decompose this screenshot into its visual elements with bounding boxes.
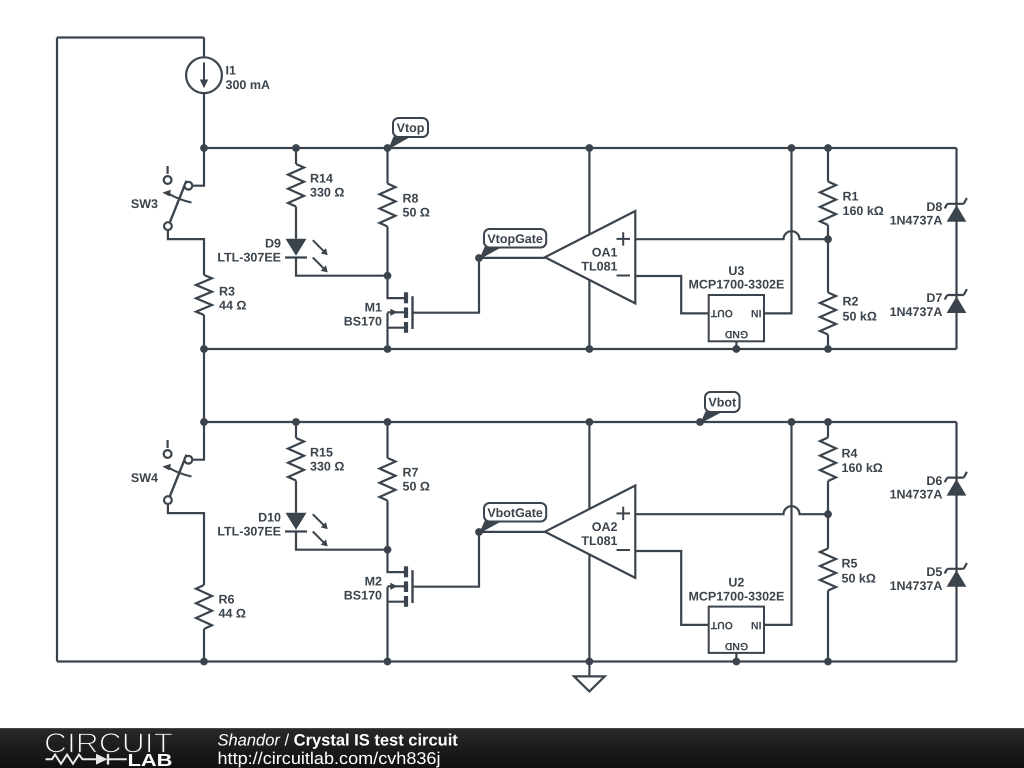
junction at 204,422: [200, 418, 208, 426]
junction at 204,661.5: [200, 658, 208, 666]
svg-text:D9: D9: [265, 236, 281, 250]
wire M1 source to rail: [386, 313, 388, 349]
wire R2 to mid rail: [827, 335, 829, 350]
svg-text:TL081: TL081: [581, 259, 617, 273]
junction at 296,422: [292, 418, 300, 426]
svg-text:160 kΩ: 160 kΩ: [842, 461, 883, 475]
svg-text:R2: R2: [843, 295, 859, 309]
wire OA1 noninverting: [635, 231, 828, 239]
svg-text:http://circuitlab.com/cvh836j: http://circuitlab.com/cvh836j: [218, 749, 441, 768]
svg-text:R7: R7: [403, 466, 419, 480]
svg-text:300 mA: 300 mA: [226, 78, 270, 92]
svg-text:44 Ω: 44 Ω: [219, 607, 246, 621]
wire I1 leads: [203, 38, 205, 149]
junction at 204,349: [200, 345, 208, 353]
svg-text:50 kΩ: 50 kΩ: [842, 572, 876, 586]
junction at 387.5,148: [384, 144, 392, 152]
wire VtopGate to M1 gate: [413, 258, 480, 313]
wire VbotGate to M2 gate: [413, 532, 480, 587]
wire OA1 inverting to U3 OUT: [635, 276, 708, 313]
junction at 736.4,661.5: [733, 658, 741, 666]
net flag VtopGate: [479, 229, 546, 260]
wire mid rail: [204, 348, 957, 350]
wire right drop bottom: [955, 422, 957, 662]
junction at 828,422: [824, 418, 832, 426]
transistor M2: [344, 550, 413, 607]
net flag Vtop: [388, 118, 428, 150]
op-amp OA2: [545, 486, 635, 578]
wire SW3 pole to rail: [192, 148, 204, 186]
svg-text:D7: D7: [926, 291, 942, 305]
svg-text:U3: U3: [728, 264, 744, 278]
wire R5 to bottom rail: [827, 591, 829, 662]
svg-text:GND: GND: [724, 328, 748, 340]
svg-text:330 Ω: 330 Ω: [310, 186, 344, 200]
junction at 204,148: [200, 144, 208, 152]
resistor R1: [820, 182, 884, 226]
regulator U2: [688, 575, 784, 652]
resistor R7: [380, 458, 430, 501]
svg-text:GND: GND: [724, 640, 748, 652]
wire R15 to D10: [295, 481, 297, 513]
svg-text:R6: R6: [219, 593, 235, 607]
junction at 828,349: [824, 345, 832, 353]
junction at 700,422: [696, 418, 704, 426]
junction at 479,258: [475, 254, 483, 262]
svg-text:OA2: OA2: [592, 520, 618, 534]
svg-text:LTL-307EE: LTL-307EE: [217, 525, 281, 539]
net flag Vbot: [700, 392, 739, 424]
CircuitLab logo: [44, 728, 173, 768]
junction at 791.5,422: [788, 418, 796, 426]
svg-text:Vbot: Vbot: [708, 396, 737, 410]
wire U2 IN riser: [764, 422, 792, 625]
junction at 828,148: [824, 144, 832, 152]
wire R1 top lead: [827, 148, 829, 182]
junction at 791.5,148: [788, 144, 796, 152]
wire R7 to M2 drain: [386, 501, 388, 550]
net flag VbotGate: [479, 503, 546, 534]
resistor R15: [288, 438, 344, 481]
footer title text: [218, 731, 459, 768]
zener diode D6: [890, 472, 967, 502]
wire SW4 throw to R6: [168, 504, 204, 585]
wire D9 to M1 drain: [296, 258, 388, 276]
current source I1: [186, 57, 270, 93]
junction at 387.5,422: [384, 418, 392, 426]
svg-text:BS170: BS170: [344, 314, 382, 328]
resistor R5: [820, 549, 876, 591]
svg-text:TL081: TL081: [581, 534, 617, 548]
resistor R4: [820, 438, 883, 482]
svg-text:44 Ω: 44 Ω: [219, 299, 246, 313]
junction at 387.5,661.5: [384, 658, 392, 666]
svg-text:D10: D10: [258, 511, 281, 525]
wire R8 top lead: [386, 148, 388, 184]
svg-text:R15: R15: [310, 446, 333, 460]
wire node to R5: [827, 514, 829, 548]
LED D10: [217, 511, 327, 547]
junction at 589.4,661.5: [586, 658, 594, 666]
wire R4 to node: [827, 481, 829, 514]
svg-text:1N4737A: 1N4737A: [890, 305, 943, 319]
wire R4 top lead: [827, 422, 829, 438]
junction at 387.5,349: [384, 345, 392, 353]
wire R1 to node: [827, 225, 829, 239]
svg-text:IN: IN: [751, 307, 762, 319]
svg-text:1N4737A: 1N4737A: [890, 579, 943, 593]
svg-text:MCP1700-3302E: MCP1700-3302E: [688, 589, 784, 603]
resistor R3: [196, 275, 246, 315]
svg-text:BS170: BS170: [344, 588, 382, 602]
svg-text:LTL-307EE: LTL-307EE: [217, 251, 281, 265]
zener diode D7: [890, 289, 967, 319]
wire R8 to M1 drain: [386, 227, 388, 276]
svg-text:50 Ω: 50 Ω: [403, 480, 430, 494]
svg-text:IN: IN: [751, 619, 762, 631]
wire U3 IN riser: [764, 148, 792, 313]
svg-text:50 kΩ: 50 kΩ: [843, 310, 877, 324]
wire OA1 supply: [588, 148, 590, 349]
svg-text:M1: M1: [365, 300, 382, 314]
svg-text:50 Ω: 50 Ω: [403, 206, 430, 220]
wire node to R2: [827, 239, 829, 292]
junction at 828,661.5: [824, 658, 832, 666]
regulator U3: [688, 264, 784, 342]
wire bottom rail: [57, 660, 957, 662]
wire top loop: [57, 38, 204, 662]
zener diode D8: [890, 198, 967, 228]
svg-text:R1: R1: [843, 190, 859, 204]
wire R14 top lead: [295, 148, 297, 164]
svg-text:R14: R14: [310, 172, 333, 186]
wire OA1 output: [479, 257, 545, 259]
wire R7 top lead: [386, 422, 388, 458]
junction at 736.4,349: [733, 345, 741, 353]
wire col A mid to Vbot: [203, 349, 205, 422]
svg-text:VtopGate: VtopGate: [487, 232, 543, 246]
svg-text:D8: D8: [926, 200, 942, 214]
svg-text:OA1: OA1: [592, 245, 618, 259]
svg-text:OUT: OUT: [710, 619, 733, 631]
resistor R14: [288, 164, 344, 207]
op-amp OA1: [545, 211, 635, 303]
wire R14 to D9: [295, 207, 297, 239]
wire OA2 noninverting: [635, 506, 828, 514]
wire D10 to M2 drain: [296, 532, 388, 550]
wire U3 GND stub: [735, 341, 737, 349]
wire U2 GND stub: [735, 653, 737, 662]
svg-text:I1: I1: [226, 64, 236, 78]
junction at 589.4,422: [586, 418, 594, 426]
svg-text:R8: R8: [403, 192, 419, 206]
junction at 387.5,549.7: [384, 546, 392, 554]
svg-text:R5: R5: [842, 557, 858, 571]
resistor R2: [820, 293, 877, 335]
svg-text:D6: D6: [926, 474, 942, 488]
wire SW4 pole to rail: [192, 422, 204, 460]
svg-text:SW3: SW3: [131, 197, 158, 211]
wire R6 to bottom rail: [203, 629, 205, 662]
svg-text:LAB: LAB: [128, 750, 173, 768]
resistor R6: [196, 585, 246, 629]
svg-text:1N4737A: 1N4737A: [890, 214, 943, 228]
junction at 828,239.2: [824, 235, 832, 243]
svg-text:R4: R4: [842, 447, 858, 461]
wire OA2 inverting to U2 OUT: [635, 551, 708, 625]
junction at 479,532: [475, 528, 483, 536]
svg-text:SW4: SW4: [131, 471, 158, 485]
svg-text:M2: M2: [365, 574, 382, 588]
svg-text:160 kΩ: 160 kΩ: [843, 204, 884, 218]
svg-text:D5: D5: [926, 565, 942, 579]
junction at 387.5,275.7: [384, 272, 392, 280]
svg-text:MCP1700-3302E: MCP1700-3302E: [688, 278, 784, 292]
ground: [574, 662, 605, 692]
svg-text:R3: R3: [219, 285, 235, 299]
LED D9: [217, 236, 327, 272]
svg-text:OUT: OUT: [710, 307, 733, 319]
zener diode D5: [890, 563, 967, 593]
junction at 589.4,148: [586, 144, 594, 152]
wire R15 top lead: [295, 422, 297, 438]
junction at 828,514.2: [824, 510, 832, 518]
svg-text:U2: U2: [728, 575, 744, 589]
svg-text:1N4737A: 1N4737A: [890, 488, 943, 502]
wire Vtop rail: [204, 147, 957, 149]
wire right drop top: [955, 148, 957, 349]
svg-text:Vtop: Vtop: [397, 121, 425, 135]
wire SW3 throw to R3: [168, 230, 204, 275]
junction at 296,148: [292, 144, 300, 152]
switch SW4: [131, 440, 192, 504]
resistor R8: [380, 184, 430, 227]
switch SW3: [131, 166, 192, 230]
footer bar: [0, 728, 1024, 768]
wire R3 to mid rail: [203, 315, 205, 349]
junction at 589.4,349: [586, 345, 594, 353]
wire OA2 output: [479, 531, 545, 533]
svg-text:Shandor / Crystal IS test circ: Shandor / Crystal IS test circuit: [218, 731, 459, 749]
wire OA2 supply: [588, 422, 590, 662]
svg-text:330 Ω: 330 Ω: [310, 460, 344, 474]
transistor M1: [344, 276, 413, 333]
svg-text:VbotGate: VbotGate: [487, 506, 543, 520]
wire Vbot rail: [204, 421, 957, 423]
wire M2 source to rail: [386, 587, 388, 662]
